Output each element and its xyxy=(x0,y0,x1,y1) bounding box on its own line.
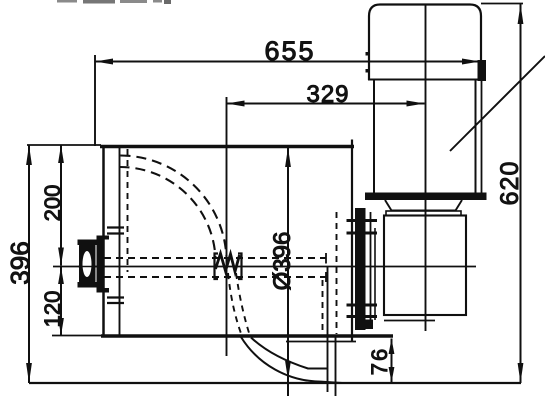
motor neck left slant xyxy=(385,200,392,211)
dimension 620 arrow up xyxy=(518,4,524,24)
dimension 200 arrow down xyxy=(58,248,64,266)
inlet bolt tick rows top xyxy=(107,228,124,304)
pedestal body xyxy=(384,216,466,316)
dimension 396 arrow up xyxy=(26,145,32,165)
dimension 200 arrow up xyxy=(58,145,64,163)
dimension D396 arrow down xyxy=(285,361,291,380)
outlet curve inner xyxy=(251,338,327,369)
mount flange bottom nub xyxy=(365,320,373,330)
inlet collar flange bar xyxy=(97,236,104,293)
outlet duct hidden dashed left xyxy=(322,280,324,334)
dimension D396 line xyxy=(287,147,289,396)
dimension 329 arrow left xyxy=(227,101,245,107)
svg-text:76: 76 xyxy=(367,347,392,375)
volute dashed arc outer xyxy=(121,156,227,257)
dimension 76 line xyxy=(391,339,393,384)
motor cap xyxy=(369,5,481,81)
inlet line end tick upper xyxy=(325,253,327,264)
svg-text:329: 329 xyxy=(306,81,349,108)
dimension 396 line xyxy=(28,145,30,383)
outlet duct hidden dashed right xyxy=(336,212,338,334)
outlet curve outer xyxy=(241,337,342,383)
motor cap right band block xyxy=(478,60,487,81)
dimension 655 arrow right xyxy=(462,59,480,65)
dimension 120 line xyxy=(60,266,62,336)
dimension 200 line xyxy=(60,145,62,266)
motor neck lip xyxy=(386,211,461,216)
dimension 329 arrow right xyxy=(407,101,425,107)
svg-text:120: 120 xyxy=(40,291,65,328)
dimension 76 arrow up xyxy=(389,339,395,355)
dimension 76 arrow down xyxy=(389,367,395,383)
dimension 655 extension line xyxy=(94,55,96,146)
dimension 120 arrow up xyxy=(58,267,64,284)
outlet hidden dashed curve left xyxy=(228,273,242,336)
svg-text:620: 620 xyxy=(496,161,524,206)
mount flange bolt ticks xyxy=(347,221,378,317)
inlet collar flange tick bottom xyxy=(97,288,110,293)
dimension 329 extension line xyxy=(226,97,228,356)
shaft break bracket right xyxy=(238,254,242,280)
volute dashed arc inner xyxy=(120,167,216,258)
mount flange vertical line 2 xyxy=(374,228,376,320)
outlet hidden dashed curve right xyxy=(236,273,250,336)
dimension 396 extension line top xyxy=(27,144,101,146)
base line xyxy=(29,382,521,384)
cut-off text remnant top edge xyxy=(57,0,171,4)
dimension 396 arrow down xyxy=(26,363,32,383)
housing left wall xyxy=(102,145,105,337)
dimension 120 arrow down xyxy=(58,318,64,336)
dimension 620 extension line top xyxy=(481,3,523,5)
hidden inlet dashed line lower xyxy=(104,276,326,278)
dimension 120 extension line bottom xyxy=(52,335,101,337)
svg-text:Ø396: Ø396 xyxy=(269,232,296,291)
svg-text:396: 396 xyxy=(5,241,35,284)
outlet duct right wall outer xyxy=(335,336,337,396)
dimension 620 line xyxy=(520,4,522,383)
housing inner dashed line xyxy=(127,149,129,272)
inlet line end tick lower xyxy=(325,272,327,282)
housing inner left line xyxy=(119,146,121,336)
motor neck right slant xyxy=(456,200,463,211)
svg-text:655: 655 xyxy=(264,36,315,66)
mount flange vertical line 1 xyxy=(370,212,372,326)
inlet collar ring xyxy=(78,240,98,288)
leader line to motor xyxy=(450,56,545,151)
housing bottom edge xyxy=(101,334,393,338)
motor neck bottom xyxy=(392,210,456,212)
motor body outer right line xyxy=(481,81,483,193)
pedestal bottom line xyxy=(384,320,435,322)
motor cap bottom seam xyxy=(368,79,481,81)
shaft center line horizontal xyxy=(53,266,476,268)
svg-text:200: 200 xyxy=(40,185,65,222)
dimension 655 arrow left xyxy=(95,59,113,65)
shaft break zigzag xyxy=(216,254,240,272)
housing bottom second line xyxy=(286,341,356,343)
housing top edge xyxy=(100,145,354,149)
dimension D396 arrow up xyxy=(285,148,291,168)
shaft break bracket left xyxy=(215,254,219,280)
dimension 655 line xyxy=(95,61,480,63)
inlet collar flange tick top xyxy=(97,236,110,240)
mount flange plate xyxy=(355,208,366,330)
hidden inlet dashed line upper xyxy=(104,257,326,259)
motor center line xyxy=(425,4,427,331)
dimension 329 line xyxy=(227,103,425,105)
housing right wall xyxy=(351,140,353,342)
center line across inlet hole xyxy=(78,266,105,268)
dimension 620 arrow down xyxy=(518,363,524,383)
motor cap left nubs xyxy=(366,52,370,56)
motor body right edge xyxy=(475,79,477,193)
outlet duct right wall xyxy=(327,266,329,392)
motor foot flange xyxy=(365,193,487,201)
motor body left edge xyxy=(373,79,375,193)
